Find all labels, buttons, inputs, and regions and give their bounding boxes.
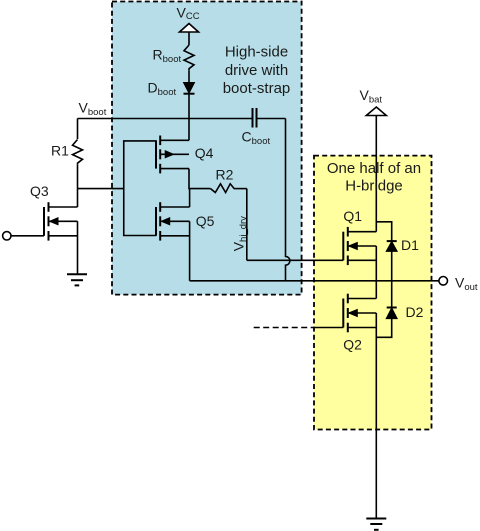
wire output rail (Q5 source / Vout net) (190, 280, 439, 282)
diode D2 (body diode of Q2) (376, 281, 397, 338)
wire Q4 drain down to R2 node (189, 169, 211, 189)
svg-text:Q5: Q5 (196, 213, 215, 229)
supply Vbat symbol (366, 107, 386, 116)
wire Q2 gate (dashed external + solid internal) (254, 327, 315, 329)
svg-text:Vout: Vout (455, 274, 478, 293)
resistor Rboot (184, 45, 194, 71)
svg-text:H-bridge: H-bridge (345, 178, 403, 195)
transistor Q3 (44, 189, 78, 275)
input terminal (3, 232, 11, 240)
wire input to Q3 gate (11, 235, 44, 237)
node Vboot horizontal wire (78, 118, 253, 120)
svg-text:Q2: Q2 (343, 337, 362, 353)
capacitor Cboot (253, 108, 286, 128)
node V_hi_drv wire (down then right to Q1 gate) (246, 189, 248, 261)
svg-text:R2: R2 (216, 167, 234, 183)
svg-text:One half of an: One half of an (327, 160, 421, 177)
svg-text:drive with: drive with (225, 62, 288, 79)
H-bridge region box (314, 156, 432, 430)
svg-text:D1: D1 (401, 237, 419, 253)
svg-text:Q1: Q1 (343, 208, 362, 224)
svg-text:Q3: Q3 (30, 183, 49, 199)
svg-text:boot-strap: boot-strap (223, 80, 291, 97)
gate bus wire for Q4/Q5 (124, 141, 156, 236)
wire node R1/Q3-drain to gate bus (78, 188, 124, 190)
diode D1 (body diode of Q1) (376, 222, 397, 281)
wire Rboot to Dboot (188, 71, 190, 83)
ground (Q3 source) (67, 274, 87, 285)
transistor Q2 (NMOS) (343, 281, 376, 519)
wire Cboot down to output rail with hop over V_hi_drv (286, 119, 290, 281)
svg-text:Vboot: Vboot (79, 100, 107, 119)
diode Dboot (184, 83, 195, 94)
transistor Q5 (NMOS) (156, 189, 190, 281)
wire Vbat to Q1 drain (375, 116, 377, 232)
svg-text:Vbat: Vbat (360, 87, 383, 106)
svg-text:R1: R1 (51, 143, 69, 159)
ground (Q2 source, bottom) (366, 519, 386, 530)
output terminal Vout (439, 277, 448, 286)
supply Vcc symbol (180, 24, 199, 33)
svg-text:Q4: Q4 (195, 145, 214, 161)
resistor R1 (with leads) (77, 119, 79, 140)
transistor Q4 (PMOS) (156, 136, 189, 174)
wire Dboot to Q4 (Vboot net vertical) (188, 94, 190, 141)
svg-text:D2: D2 (406, 304, 424, 320)
high-side driver region box (112, 2, 302, 295)
svg-text:High-side: High-side (225, 44, 288, 61)
resistor R2 (211, 184, 236, 193)
wire Vcc to Rboot (188, 32, 190, 45)
transistor Q1 (NMOS) (343, 227, 376, 281)
